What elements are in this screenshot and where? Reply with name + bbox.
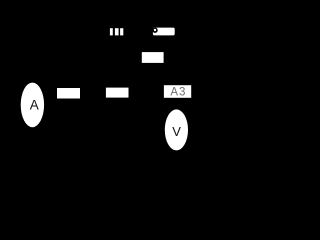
svg-text:A: A — [30, 97, 39, 112]
resistor (upper middle block) — [142, 52, 164, 63]
resistor (middle block) — [106, 88, 129, 98]
battery cell plate 3 — [120, 28, 123, 35]
switch S (white bar with terminal ring) — [152, 28, 174, 36]
voltmeter V — [165, 109, 188, 150]
battery cell plate 1 — [110, 28, 113, 35]
ammeter A — [21, 83, 44, 128]
svg-text:V: V — [172, 124, 181, 139]
label box A3 — [164, 85, 191, 98]
svg-text:A3: A3 — [170, 87, 186, 99]
resistor (left block) — [57, 88, 80, 99]
battery cell plate 2 — [115, 28, 119, 35]
